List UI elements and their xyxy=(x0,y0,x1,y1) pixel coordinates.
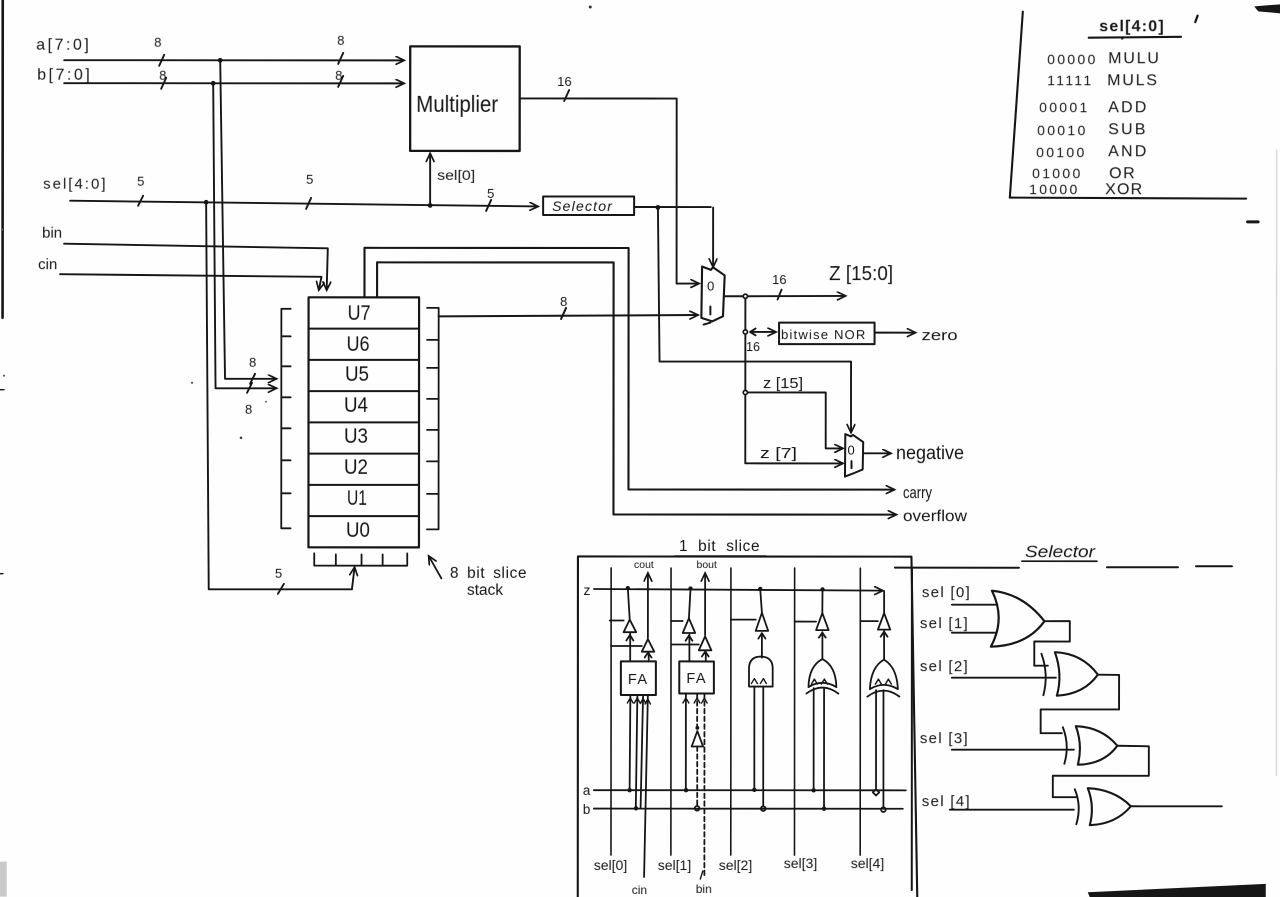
svg-text:b[7:0]: b[7:0] xyxy=(37,67,92,84)
svg-text:sel [4]: sel [4] xyxy=(922,793,971,810)
svg-text:sel[0]: sel[0] xyxy=(437,167,475,183)
svg-text:negative: negative xyxy=(896,443,964,464)
svg-text:1 bit slice: 1 bit slice xyxy=(679,538,760,555)
svg-text:bin: bin xyxy=(42,225,62,242)
svg-text:5: 5 xyxy=(137,174,144,189)
svg-text:8: 8 xyxy=(249,355,256,370)
svg-text:a: a xyxy=(583,783,591,798)
svg-text:Multiplier: Multiplier xyxy=(416,91,498,117)
svg-text:stack: stack xyxy=(467,582,503,599)
svg-text:bout: bout xyxy=(696,559,717,571)
svg-text:01000: 01000 xyxy=(1032,165,1082,181)
svg-text:cout: cout xyxy=(634,559,654,571)
svg-text:8 bit slice: 8 bit slice xyxy=(450,565,527,582)
svg-text:MULU: MULU xyxy=(1108,50,1161,67)
svg-text:0: 0 xyxy=(707,279,714,294)
svg-text:U5: U5 xyxy=(345,363,369,386)
svg-text:sel[3]: sel[3] xyxy=(784,855,817,871)
svg-text:8: 8 xyxy=(245,402,252,417)
svg-text:carry: carry xyxy=(903,484,933,502)
svg-text:16: 16 xyxy=(772,272,786,287)
svg-text:sel [2]: sel [2] xyxy=(920,658,969,675)
svg-text:U7: U7 xyxy=(348,302,371,325)
svg-text:U3: U3 xyxy=(344,425,368,448)
svg-text:z [7]: z [7] xyxy=(760,445,797,462)
svg-text:sel[4:0]: sel[4:0] xyxy=(43,176,107,193)
svg-text:U1: U1 xyxy=(347,487,367,510)
svg-text:5: 5 xyxy=(306,172,313,187)
svg-text:16: 16 xyxy=(746,340,760,354)
svg-text:z: z xyxy=(583,582,590,598)
svg-text:MULS: MULS xyxy=(1107,72,1159,89)
svg-text:sel[1]: sel[1] xyxy=(658,857,691,873)
svg-text:sel [1]: sel [1] xyxy=(920,615,969,632)
svg-text:U2: U2 xyxy=(344,456,368,479)
svg-text:FA: FA xyxy=(686,671,707,687)
svg-text:8: 8 xyxy=(560,294,567,309)
svg-text:Selector: Selector xyxy=(1025,543,1097,561)
svg-text:00100: 00100 xyxy=(1036,144,1086,160)
svg-text:FA: FA xyxy=(628,672,649,688)
svg-text:8: 8 xyxy=(154,35,161,50)
svg-text:bin: bin xyxy=(696,882,712,896)
svg-text:sel[4:0]: sel[4:0] xyxy=(1099,18,1165,35)
svg-text:Z [15:0]: Z [15:0] xyxy=(829,263,893,285)
svg-text:sel [3]: sel [3] xyxy=(920,730,969,747)
svg-text:8: 8 xyxy=(159,68,166,83)
svg-text:z [15]: z [15] xyxy=(763,375,803,392)
svg-text:cin: cin xyxy=(632,883,647,897)
svg-text:bitwise NOR: bitwise NOR xyxy=(781,327,866,342)
svg-text:U6: U6 xyxy=(347,333,370,356)
svg-text:16: 16 xyxy=(557,74,571,89)
svg-text:11111: 11111 xyxy=(1047,72,1093,88)
svg-text:OR: OR xyxy=(1109,165,1136,182)
svg-text:SUB: SUB xyxy=(1108,121,1148,138)
svg-text:10000: 10000 xyxy=(1029,181,1079,197)
svg-text:sel [0]: sel [0] xyxy=(922,584,971,601)
svg-text:sel[0]: sel[0] xyxy=(594,857,627,873)
svg-text:sel[4]: sel[4] xyxy=(851,855,884,871)
svg-text:5: 5 xyxy=(275,566,282,581)
svg-text:XOR: XOR xyxy=(1105,181,1143,198)
svg-text:8: 8 xyxy=(335,68,342,83)
svg-text:overflow: overflow xyxy=(903,508,968,525)
svg-text:00001: 00001 xyxy=(1039,99,1089,115)
svg-text:U0: U0 xyxy=(346,519,370,542)
svg-text:AND: AND xyxy=(1108,143,1148,160)
svg-text:zero: zero xyxy=(922,327,958,344)
svg-text:00010: 00010 xyxy=(1037,122,1087,138)
svg-text:Selector: Selector xyxy=(552,198,613,214)
svg-text:cin: cin xyxy=(38,256,57,273)
svg-text:b: b xyxy=(583,802,591,817)
svg-text:U4: U4 xyxy=(344,394,368,417)
svg-text:0: 0 xyxy=(847,443,854,458)
svg-text:a[7:0]: a[7:0] xyxy=(36,37,91,54)
svg-text:00000: 00000 xyxy=(1047,51,1097,67)
svg-text:5: 5 xyxy=(487,186,494,201)
svg-text:ADD: ADD xyxy=(1108,99,1148,116)
svg-text:sel[2]: sel[2] xyxy=(719,857,752,873)
svg-text:8: 8 xyxy=(337,33,344,48)
